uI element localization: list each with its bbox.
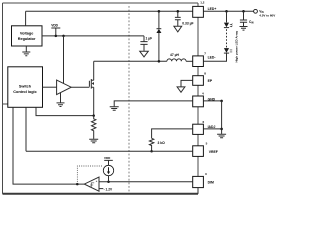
capacitor 1uF [140, 36, 147, 51]
node: CIN branch [242, 10, 245, 13]
wire: DIM pin bottom to IC edge [197, 188, 199, 194]
wire: GND pin internal to ground [114, 101, 193, 107]
svg-text:- 1.2V: - 1.2V [104, 188, 113, 192]
svg-text:47 µH: 47 µH [170, 53, 179, 57]
ground (bar style) below CIN [240, 27, 248, 31]
svg-text:Voltage: Voltage [20, 31, 33, 35]
wire: dotted feedback to current source [77, 166, 103, 184]
wire: border stub into switch control logic [3, 103, 8, 105]
pin box LED+ (1,2) [193, 6, 204, 17]
resistor R-sense [92, 116, 96, 139]
svg-text:3: 3 [205, 172, 207, 176]
switch control logic box [8, 67, 43, 108]
node: comparator output junction [76, 183, 79, 186]
pin box DIM (3) [193, 176, 204, 187]
ground (bar style) below sense resistor [89, 139, 98, 143]
wire: DIM line [99, 181, 193, 183]
node: GND tie [220, 100, 223, 103]
wire: switch node horizontal [94, 60, 167, 62]
diode D1 freewheeling [158, 11, 160, 28]
svg-text:8: 8 [204, 71, 206, 75]
wire: stub to VREF line [25, 107, 27, 151]
wire: LED array bottom to LED- net [203, 53, 226, 61]
wire: EP pin to ground [181, 80, 193, 86]
LED D3 bottom of array [224, 48, 229, 53]
wire: regulator input up to LED+ rail [25, 11, 27, 25]
svg-text:Regulator: Regulator [18, 37, 36, 41]
ground (bar style) internal GND [110, 107, 119, 111]
wire: IADJ pin to R-adj [152, 129, 193, 138]
IC boundary left edge [2, 3, 4, 194]
node: IADJ tie [220, 128, 223, 131]
wire: top rail from regulator to LED+ pin [26, 10, 193, 12]
svg-text:High power LED Array: High power LED Array [235, 30, 239, 62]
ground (bar style) below driver [57, 103, 65, 107]
svg-text:VREF: VREF [209, 150, 218, 154]
IC boundary bottom edge [3, 193, 199, 195]
pin box GND (4) [193, 96, 204, 107]
wire: tie rail down to IADJ [221, 101, 223, 134]
svg-text:VDD: VDD [51, 24, 58, 28]
wire: stub to current sense node [36, 107, 94, 115]
wire: driver output to MOSFET gate [71, 86, 89, 88]
node: diode top junction [158, 10, 161, 13]
wire: MOSFET drain up to switch node [93, 61, 95, 80]
wire: driver ground stem [60, 93, 62, 103]
pin box LED- (7) [193, 56, 204, 67]
pin box VREF (5) [193, 146, 204, 157]
svg-text:EP: EP [208, 79, 213, 83]
dashed internal divider line [128, 6, 130, 192]
node: current sense junction [92, 114, 95, 117]
svg-text:4.5V to 60V: 4.5V to 60V [259, 14, 275, 18]
wire: IADJ pin to tie rail [203, 128, 221, 130]
wire: comparator minus input stub [99, 188, 103, 190]
svg-text:3 kΩ: 3 kΩ [158, 141, 166, 145]
svg-text:Switch: Switch [19, 84, 32, 88]
ground (bar style) below regulator [22, 52, 30, 56]
svg-text:LED+: LED+ [208, 7, 217, 11]
svg-text:CIN: CIN [249, 20, 254, 25]
svg-text:GND: GND [208, 98, 216, 102]
node: 0.33uF junction [177, 10, 180, 13]
svg-text:+: + [96, 179, 98, 183]
svg-text:5: 5 [206, 141, 208, 145]
wire: current source to DIM node [108, 176, 110, 182]
node: diode bottom junction [158, 60, 161, 63]
svg-text:1 µF: 1 µF [146, 37, 153, 41]
comparator U2 [84, 177, 99, 191]
op-amp gate driver triangle [57, 80, 72, 95]
wire: dashed LED array continuation [226, 29, 228, 48]
svg-text:1,2: 1,2 [200, 1, 205, 5]
ground (open triangle) below 1uF [140, 51, 149, 57]
wire: GND pin external to tie rail [203, 100, 221, 102]
wire: LED+ pin to VIN terminal [203, 10, 253, 12]
pin box IADJ (6) [193, 124, 204, 134]
LED D2 top of array [226, 11, 228, 22]
IC boundary right edge segments linking pin boxes [197, 3, 199, 194]
voltage regulator U-REG box [12, 26, 43, 46]
capacitor CIN [240, 11, 247, 26]
IC boundary top edge [3, 2, 199, 4]
svg-text:0.33 µF: 0.33 µF [182, 22, 193, 26]
ground (open triangle) for EP [177, 87, 185, 92]
wire: stub to comparator output [13, 107, 84, 184]
wire: inductor to LED- pin [186, 60, 193, 62]
node VDD tick junction [55, 35, 58, 38]
svg-text:Control logic: Control logic [13, 90, 36, 94]
VDD supply symbol (top) [51, 28, 60, 36]
svg-text:6: 6 [203, 120, 205, 124]
current source I1 [103, 165, 113, 175]
svg-text:VDD: VDD [104, 156, 111, 160]
pin box EP [193, 76, 204, 86]
svg-text:4: 4 [202, 92, 204, 96]
wire: MOSFET source down to sense node [93, 87, 95, 115]
wire: regulator ground stem [25, 46, 27, 52]
wire: VREF line [26, 150, 193, 152]
wire: VDD feed down to gate driver [63, 36, 65, 84]
capacitor 0.33uF [175, 11, 181, 26]
transistor Q1 power MOSFET [89, 79, 93, 89]
wire: switch logic output to gate driver [43, 86, 57, 88]
wire: regulator output VDD [42, 35, 144, 37]
inductor L1 47uH [167, 59, 186, 61]
ground (open triangle) below 0.33uF [174, 26, 182, 32]
node: DIM junction [107, 181, 110, 184]
ground (bar style) below tie rail [217, 134, 226, 138]
svg-text:LED-: LED- [208, 56, 216, 60]
svg-text:7: 7 [204, 52, 206, 56]
VIN terminal circle [254, 9, 258, 13]
svg-text:DIM: DIM [208, 181, 214, 185]
comparator hysteresis glyph [89, 183, 94, 187]
VDD supply symbol (bottom) [104, 160, 113, 165]
resistor R1 3k [149, 138, 153, 151]
node VDD branch to gate driver [62, 35, 65, 38]
node: LED string branch [225, 10, 228, 13]
circuit schematic: LED driver functional block diagram [0, 0, 280, 198]
node: R1 bottom junction [150, 150, 153, 153]
svg-text:IADJ: IADJ [208, 125, 216, 129]
